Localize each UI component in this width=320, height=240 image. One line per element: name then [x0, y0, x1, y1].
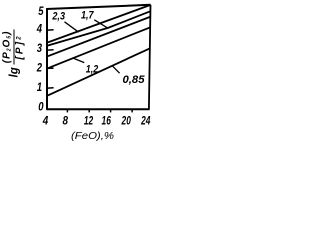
curve (third line): [48, 17, 150, 56]
axis frame: left y-axis: [46, 8, 48, 109]
curve for basicity 1,2 (fourth line): [48, 27, 150, 68]
x tick at value 8: [66, 109, 68, 112]
y tick at value 2: [48, 67, 54, 69]
x tick at value 20: [131, 109, 133, 112]
svg-text:0: 0: [38, 102, 44, 114]
svg-text:(FeO),%: (FeO),%: [71, 130, 114, 142]
curve for basicity 0,85 (bottom line): [48, 48, 150, 95]
svg-text:1,7: 1,7: [81, 10, 94, 22]
svg-text:20: 20: [121, 113, 131, 127]
svg-text:5: 5: [38, 6, 44, 18]
axis frame: bottom x-axis: [46, 108, 149, 110]
svg-text:3: 3: [37, 43, 43, 55]
svg-text:0,85: 0,85: [123, 74, 146, 86]
leader from label 0,85 to bottom curve: [112, 66, 119, 73]
x tick at value 12: [88, 109, 90, 112]
curve for basicity 2,3 (top line): [48, 5, 150, 42]
svg-text:8: 8: [63, 113, 69, 127]
y-axis title: lg: [8, 67, 20, 77]
y tick at value 4: [48, 29, 54, 31]
y tick at value 1: [48, 87, 54, 89]
leader from label 1,7 to second curve: [94, 20, 108, 28]
y-axis title: lg (P2O5)/[P]^2 rotated: [2, 29, 27, 79]
svg-text:12: 12: [84, 113, 94, 127]
y tick at value 3: [48, 49, 54, 51]
x tick at value 16: [110, 109, 112, 112]
svg-text:1,2: 1,2: [86, 63, 98, 75]
svg-text:4: 4: [36, 24, 43, 36]
leader from label 1,2 to fourth curve: [73, 58, 85, 63]
svg-text:24: 24: [140, 113, 150, 127]
y-axis title: fraction (P2O5) over [P]2: [2, 30, 26, 65]
svg-text:1: 1: [37, 82, 42, 94]
leader from label 2,3 to top curve: [65, 22, 79, 32]
svg-text:16: 16: [102, 113, 112, 127]
axis frame: top edge (tilted up to right): [46, 5, 150, 9]
axis frame: right edge: [149, 5, 151, 109]
svg-text:4: 4: [42, 113, 49, 127]
svg-text:2,3: 2,3: [52, 11, 65, 23]
svg-text:2: 2: [36, 63, 43, 75]
curve for basicity 1,7 (second line): [48, 11, 150, 45]
